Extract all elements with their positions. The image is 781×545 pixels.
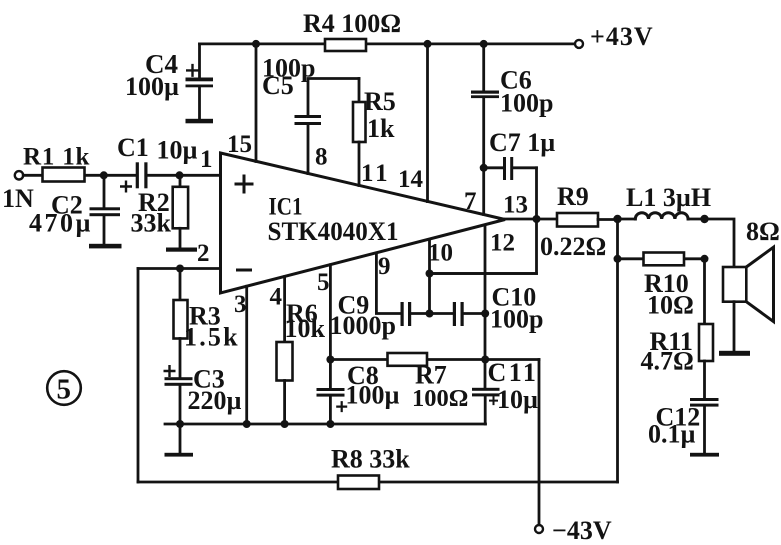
svg-text:0.22Ω: 0.22Ω xyxy=(540,232,606,261)
capacitor C10 xyxy=(430,302,486,326)
capacitor C3 xyxy=(164,365,193,424)
capacitor C5 xyxy=(295,79,360,174)
op-amp minus input mark xyxy=(236,269,252,272)
ground symbol main xyxy=(165,424,194,457)
terminal +43V xyxy=(575,22,654,51)
svg-text:10: 10 xyxy=(428,240,453,267)
svg-text:R5: R5 xyxy=(364,87,396,116)
ground bar R2 xyxy=(166,248,197,252)
wire feedback left vertical xyxy=(137,269,140,483)
svg-text:7: 7 xyxy=(464,188,477,215)
svg-text:C7 1µ: C7 1µ xyxy=(489,128,555,157)
svg-text:8: 8 xyxy=(315,144,328,171)
pin number 5 xyxy=(317,269,330,296)
svg-text:100µ: 100µ xyxy=(346,381,400,410)
svg-text:10µ: 10µ xyxy=(497,385,538,414)
node junction pin10 at C9 C10 xyxy=(426,310,434,318)
capacitor C11 xyxy=(472,388,500,424)
svg-text:15: 15 xyxy=(227,131,252,158)
svg-text:9: 9 xyxy=(378,253,391,280)
capacitor C7 xyxy=(480,157,537,180)
resistor R3 xyxy=(174,269,188,378)
pin number 9 xyxy=(378,253,391,280)
wire L1 to speaker xyxy=(705,219,735,267)
op-amp plus input mark xyxy=(235,175,254,194)
node junction R10 left xyxy=(614,255,622,263)
label R11 xyxy=(641,327,694,376)
svg-text:100µ: 100µ xyxy=(125,72,179,101)
pin number 13 xyxy=(503,192,528,219)
label C1 xyxy=(117,133,198,165)
wire pin10 to output box bottom xyxy=(430,272,537,275)
wire top supply rail xyxy=(200,43,580,46)
pin number 1 xyxy=(200,146,213,173)
wire pin12 box right and bottom xyxy=(430,219,537,274)
wire pin 12 stub vertical xyxy=(484,225,487,388)
label C7 xyxy=(489,128,555,157)
label R6 xyxy=(285,299,326,343)
label L1 xyxy=(626,183,711,212)
capacitor C12 xyxy=(690,398,719,453)
svg-text:1: 1 xyxy=(200,146,213,173)
node junction pin15 on rail xyxy=(252,40,260,48)
svg-text:STK4040X1: STK4040X1 xyxy=(268,217,399,246)
wire pin 5 stub xyxy=(329,265,332,389)
svg-text:4: 4 xyxy=(270,284,283,311)
wire pin 14 stub xyxy=(426,44,429,202)
wire output node row xyxy=(505,218,557,221)
svg-text:10k: 10k xyxy=(285,314,326,343)
node junction R9 L1 xyxy=(613,215,621,223)
svg-text:4.7Ω: 4.7Ω xyxy=(641,347,694,376)
node junction output pin13 xyxy=(533,215,541,223)
wire pin 9 stub xyxy=(376,253,401,314)
wire pin 10 stub xyxy=(428,239,431,313)
wire pin 2 row xyxy=(138,267,221,270)
svg-text:R9: R9 xyxy=(557,182,589,211)
pin number 10 xyxy=(428,240,453,267)
label R10 xyxy=(644,269,694,320)
pin number 11 xyxy=(361,160,391,187)
wire negative rail to terminal xyxy=(538,360,541,526)
svg-text:R1 1k: R1 1k xyxy=(23,144,90,171)
node junction C3 on bus xyxy=(176,420,184,428)
label R8 xyxy=(331,445,410,474)
resistor R8 xyxy=(338,476,379,490)
svg-text:12: 12 xyxy=(490,230,515,257)
capacitor C6 xyxy=(471,44,499,215)
label speaker 8ohm xyxy=(746,217,780,246)
resistor R11 xyxy=(699,259,713,399)
node junction C2 xyxy=(100,171,108,179)
node junction R6 on bus xyxy=(281,420,289,428)
wire ground bus xyxy=(165,423,486,426)
label IC1 xyxy=(269,194,303,221)
node junction C10 right xyxy=(481,310,489,318)
node junction R10 right xyxy=(701,255,709,263)
svg-text:8Ω: 8Ω xyxy=(746,217,780,246)
label C10 xyxy=(490,283,543,334)
wire R10 row xyxy=(618,257,705,260)
speaker SP xyxy=(723,247,774,321)
label C6 xyxy=(500,66,553,118)
svg-text:5: 5 xyxy=(57,374,72,406)
svg-text:100Ω: 100Ω xyxy=(412,385,468,412)
svg-text:11: 11 xyxy=(361,160,391,187)
node junction C8 on bus xyxy=(326,420,334,428)
node junction pin3 on bus xyxy=(243,420,251,428)
capacitor C1 xyxy=(120,162,148,192)
svg-text:L1 3µH: L1 3µH xyxy=(626,183,711,212)
svg-text:100p: 100p xyxy=(500,89,553,118)
node junction pin10 mid xyxy=(426,270,434,278)
svg-text:10µ: 10µ xyxy=(157,136,198,165)
node junction C6 on rail xyxy=(480,40,488,48)
wire pin 3 stub xyxy=(245,286,248,424)
svg-text:0.1µ: 0.1µ xyxy=(648,420,696,449)
label C11 xyxy=(488,358,539,414)
pin number 15 xyxy=(227,131,252,158)
label R5 xyxy=(364,87,396,143)
label R4 value xyxy=(303,9,401,38)
svg-text:+43V: +43V xyxy=(590,22,654,51)
svg-text:−43V: −43V xyxy=(552,516,612,545)
resistor R4 xyxy=(325,39,366,51)
pin number 4 xyxy=(270,284,283,311)
wire input row xyxy=(23,174,220,177)
svg-text:10Ω: 10Ω xyxy=(647,291,694,320)
resistor R6 xyxy=(277,277,293,424)
label R1 xyxy=(23,144,90,171)
svg-text:14: 14 xyxy=(398,166,424,193)
svg-text:1k: 1k xyxy=(367,114,395,143)
svg-text:1000p: 1000p xyxy=(330,311,396,340)
resistor R2 xyxy=(173,175,188,247)
capacitor C2 xyxy=(90,175,121,244)
resistor R10 xyxy=(644,253,685,266)
node junction R3 on pin2 wire xyxy=(176,265,184,273)
node junction L1 right xyxy=(700,215,708,223)
label C12 xyxy=(648,403,700,449)
capacitor C9 xyxy=(401,302,430,326)
resistor R5 xyxy=(353,79,366,186)
svg-text:R8 33k: R8 33k xyxy=(331,445,410,474)
label R7 xyxy=(412,361,468,413)
svg-text:220µ: 220µ xyxy=(188,386,242,415)
ground symbol speaker xyxy=(719,302,750,356)
node junction pin5 R7 xyxy=(326,356,334,364)
label C9 xyxy=(330,291,396,341)
label R9 xyxy=(540,182,606,261)
svg-text:2: 2 xyxy=(197,240,210,267)
label C8 xyxy=(346,361,400,410)
ground bar C12 xyxy=(690,453,719,457)
svg-text:100p: 100p xyxy=(490,305,543,334)
svg-text:R4 100Ω: R4 100Ω xyxy=(303,9,401,38)
wire R7 row xyxy=(330,358,539,361)
wire feedback bottom row xyxy=(138,481,618,484)
pin number 7 xyxy=(464,188,477,215)
label C5 xyxy=(262,54,315,101)
svg-text:C1: C1 xyxy=(117,133,149,162)
ground bar C4 xyxy=(186,119,214,124)
label R3 xyxy=(184,302,240,352)
svg-text:33k: 33k xyxy=(131,209,172,238)
svg-text:470µ: 470µ xyxy=(29,209,93,238)
wire pin 15 stub xyxy=(255,44,258,162)
capacitor C4 xyxy=(186,44,214,119)
node junction C11 R7 xyxy=(481,356,489,364)
resistor R9 xyxy=(557,213,618,227)
svg-text:C11: C11 xyxy=(488,358,539,387)
svg-text:3: 3 xyxy=(234,291,247,318)
wire zobel vertical left xyxy=(616,219,619,482)
svg-text:13: 13 xyxy=(503,192,528,219)
label C2 xyxy=(29,191,93,238)
svg-text:5: 5 xyxy=(317,269,330,296)
label R2 xyxy=(131,188,172,238)
label STK4040X1 xyxy=(268,217,399,246)
op-amp IC1 STK4040X1 triangle xyxy=(221,153,506,293)
inductor L1 xyxy=(618,213,705,219)
label C3 xyxy=(188,365,242,416)
node junction R2 xyxy=(176,171,184,179)
svg-text:1.5k: 1.5k xyxy=(184,323,240,352)
pin number 2 xyxy=(197,240,210,267)
terminal input 1N xyxy=(2,171,34,213)
terminal -43V xyxy=(535,516,612,545)
ground bar C2 xyxy=(89,244,122,249)
svg-text:C5: C5 xyxy=(262,71,294,100)
pin number 14 xyxy=(398,166,424,193)
node junction pin14 on rail xyxy=(424,40,432,48)
wire C7 to output node xyxy=(535,168,538,219)
resistor R7 xyxy=(388,353,428,366)
pin number 8 xyxy=(315,144,328,171)
figure number circled 5 xyxy=(47,371,81,405)
pin number 12 xyxy=(490,230,515,257)
label C4 xyxy=(125,49,179,101)
resistor R1 xyxy=(43,168,85,182)
pin number 3 xyxy=(234,291,247,318)
capacitor C8 xyxy=(317,388,348,424)
